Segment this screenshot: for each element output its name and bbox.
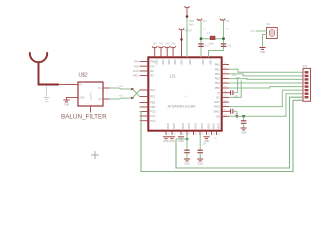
wire U1 p10 to SV1 pin6	[229, 90, 303, 107]
svg-text:XO: XO	[216, 96, 220, 100]
svg-text:GND: GND	[184, 162, 190, 165]
svg-text:PA9: PA9	[134, 65, 139, 68]
antenna stem	[38, 62, 40, 85]
svg-text:RF2: RF2	[150, 95, 155, 99]
wire VDD to U1	[186, 18, 188, 58]
svg-text:23: 23	[224, 67, 226, 69]
U1 top pin stubs	[155, 49, 173, 57]
svg-text:GND: GND	[178, 140, 184, 143]
svg-text:VDD: VDD	[179, 59, 182, 64]
svg-text:39: 39	[208, 134, 210, 136]
svg-text:VDD: VDD	[167, 59, 170, 64]
wire VCC C down	[200, 21, 202, 57]
svg-text:SWC: SWC	[214, 109, 220, 113]
wire L network horizontal	[201, 38, 224, 40]
svg-text:+: +	[185, 95, 187, 99]
svg-text:33: 33	[167, 134, 169, 136]
svg-text:PA11: PA11	[133, 75, 139, 78]
svg-text:GN: GN	[216, 114, 220, 118]
svg-text:XC1: XC1	[232, 75, 237, 77]
svg-text:PB5: PB5	[215, 86, 220, 90]
svg-text:GND: GND	[187, 123, 190, 129]
wire VCC D down	[223, 21, 225, 51]
junction L left	[200, 37, 203, 40]
svg-text:BALUN_FILTER: BALUN_FILTER	[61, 114, 107, 121]
svg-text:3V3: 3V3	[165, 44, 170, 46]
U1 right pin numbers	[224, 63, 226, 117]
wire U1 p7 to C16	[229, 92, 231, 94]
svg-text:GND: GND	[80, 98, 85, 100]
svg-text:10uH: 10uH	[209, 43, 215, 45]
antenna E1 arc	[30, 52, 47, 62]
U1 right pin stubs	[222, 65, 229, 117]
balun U$2 pin 4 stub	[103, 98, 110, 100]
svg-text:3V3: 3V3	[159, 44, 164, 46]
U1 inner pin labels top	[155, 59, 212, 64]
antenna pin dot	[57, 83, 59, 85]
svg-text:PC1: PC1	[150, 114, 156, 118]
svg-text:C14: C14	[204, 46, 209, 48]
antenna foot bar	[38, 83, 57, 85]
svg-text:PA8: PA8	[134, 61, 139, 64]
capacitor C16	[230, 90, 232, 95]
svg-text:17: 17	[224, 96, 226, 98]
wire U1 p5 to SV1 pin4	[229, 82, 303, 84]
U1 bottom pin numbers	[167, 134, 220, 136]
U1 inner pin labels left	[150, 60, 156, 123]
svg-text:PB1: PB1	[215, 67, 220, 71]
power VCC D symbol	[220, 19, 225, 21]
wire bus B	[140, 100, 303, 171]
svg-text:3V3: 3V3	[171, 44, 176, 46]
U1 left pin stubs	[140, 62, 149, 121]
svg-text:GND: GND	[172, 123, 175, 129]
svg-text:IN: IN	[80, 85, 83, 87]
svg-text:GND: GND	[206, 123, 209, 129]
svg-text:XC1: XC1	[251, 31, 256, 33]
svg-text:3V3: 3V3	[202, 21, 207, 23]
wire p187 vertical	[186, 135, 188, 150]
VCC row labels	[153, 44, 176, 46]
svg-text:GND: GND	[193, 123, 196, 129]
balun U$2 pin 2 stub	[72, 97, 78, 99]
svg-text:ANA: ANA	[189, 23, 194, 26]
svg-text:GND: GND	[241, 131, 247, 134]
svg-text:21: 21	[224, 77, 226, 79]
ground balun	[63, 99, 69, 101]
wire U1 p12 to SV1 pin7	[229, 94, 303, 117]
wire balun out2 to U1 (cross)	[110, 90, 140, 99]
svg-text:PB0: PB0	[215, 63, 220, 67]
ground C18	[241, 127, 247, 129]
svg-text:PA7: PA7	[150, 64, 155, 68]
power VCC symbol 2	[158, 46, 163, 48]
svg-text:37: 37	[195, 134, 197, 136]
ground U1 bottom x172	[169, 136, 175, 138]
svg-text:PA10: PA10	[133, 70, 139, 73]
capacitor C19	[184, 149, 189, 151]
net arrow RF-	[131, 97, 134, 100]
wire U1 p8 up	[229, 96, 241, 98]
svg-text:14: 14	[224, 110, 226, 112]
U1 inner pin labels bottom	[166, 123, 220, 129]
svg-text:GND: GND	[181, 123, 184, 129]
capacitor C15	[221, 43, 226, 45]
svg-text:RF1: RF1	[150, 88, 155, 92]
ground U1 bottom x181	[178, 136, 184, 138]
wire C16 up	[234, 92, 238, 94]
gray stub at antenna	[46, 86, 48, 97]
wire U1 p3 to SV1 pin2	[229, 74, 303, 76]
svg-text:VDD: VDD	[189, 21, 194, 23]
gray ground at antenna	[44, 97, 49, 99]
balun U$2 pin 3 stub	[103, 87, 110, 89]
svg-text:NC: NC	[150, 74, 154, 78]
svg-text:40: 40	[213, 134, 215, 136]
svg-text:1uF: 1uF	[203, 143, 208, 145]
svg-text:VDD: VDD	[161, 59, 164, 64]
wire C18 branch	[243, 116, 245, 120]
connector SV1 pin pads	[305, 71, 309, 98]
svg-text:GND: GND	[260, 51, 266, 54]
svg-text:3V3: 3V3	[153, 44, 158, 46]
junction VCC A	[186, 15, 189, 18]
svg-text:3V3: 3V3	[225, 21, 230, 23]
svg-text:VDD: VDD	[208, 59, 211, 64]
wire U1 p4 to SV1 pin3	[229, 78, 303, 81]
svg-text:20: 20	[224, 81, 226, 83]
svg-text:VDD: VDD	[188, 59, 191, 64]
svg-text:15: 15	[224, 105, 226, 107]
capacitor C17	[230, 109, 232, 114]
wire VCC A stub	[186, 9, 188, 17]
svg-text:SWD: SWD	[214, 105, 220, 109]
svg-text:VDDIO: VDDIO	[184, 30, 192, 33]
origin crosshair	[91, 154, 99, 156]
inductor L1	[210, 36, 215, 39]
wire crystal XC1	[256, 30, 267, 32]
svg-text:38: 38	[201, 134, 203, 136]
svg-text:24: 24	[224, 63, 226, 65]
crystal Q1 marks	[269, 30, 271, 36]
wire U1 p2 to SV1 pin1	[229, 69, 303, 72]
ground C20	[197, 158, 203, 160]
capacitor C18	[241, 120, 246, 122]
svg-text:XC2: XC2	[236, 78, 241, 80]
op IC U1 box	[148, 57, 221, 130]
power VCC symbol 4	[171, 46, 176, 48]
svg-text:GND: GND	[44, 101, 49, 103]
wire balun out1 to U1 (cross)	[110, 88, 140, 97]
svg-text:XI: XI	[217, 91, 220, 95]
ground U1 bottom x207	[203, 136, 209, 138]
svg-text:GND: GND	[211, 123, 214, 129]
balun U$2 pin 5 stub	[90, 106, 92, 113]
svg-text:RST: RST	[215, 100, 221, 104]
U1 outer pin labels left	[133, 61, 139, 78]
svg-text:GND: GND	[169, 140, 175, 143]
svg-text:VDD: VDD	[155, 59, 158, 64]
svg-text:ATSAMR21G18A: ATSAMR21G18A	[168, 105, 196, 109]
connector SV1 box	[303, 68, 311, 101]
svg-text:VDD: VDD	[173, 59, 176, 64]
wire antenna feed	[59, 84, 73, 86]
wire U1 p6 to SV1 pin5	[229, 87, 303, 88]
svg-text:2450FB: 2450FB	[91, 92, 93, 100]
svg-text:PC0: PC0	[150, 110, 156, 114]
svg-text:PC2: PC2	[150, 119, 156, 123]
svg-text:NC: NC	[150, 69, 154, 73]
svg-text:18: 18	[224, 91, 226, 93]
svg-text:SV1: SV1	[303, 65, 308, 68]
balun U$2 box	[78, 82, 103, 106]
svg-text:PB3: PB3	[150, 105, 155, 109]
wire p200 vertical	[199, 135, 201, 150]
junction L right	[222, 37, 225, 40]
crystal Q1 box	[267, 28, 278, 39]
junction VCC B	[180, 38, 182, 40]
svg-text:GND: GND	[204, 140, 210, 143]
svg-text:PB3: PB3	[215, 77, 220, 81]
svg-text:19: 19	[224, 86, 226, 88]
wire bus A	[176, 97, 303, 168]
svg-text:VDD: VDD	[201, 59, 204, 64]
wire crystal gnd	[263, 35, 268, 48]
U1 bottom pin stubs	[166, 131, 217, 135]
balun U$2 pin 1 stub	[72, 84, 78, 86]
svg-text:GND: GND	[163, 140, 169, 143]
ground crystal	[259, 47, 265, 49]
svg-text:GND: GND	[64, 103, 70, 106]
svg-text:41: 41	[218, 134, 220, 136]
svg-text:GND: GND	[166, 123, 169, 129]
svg-text:36: 36	[188, 134, 190, 136]
svg-text:PB2: PB2	[215, 72, 220, 76]
wire U1 p11 to C17	[229, 110, 231, 112]
power VCC A symbol	[184, 6, 189, 8]
svg-text:U$2: U$2	[79, 73, 88, 79]
svg-text:PB4: PB4	[215, 81, 220, 85]
power VCC C symbol	[197, 19, 202, 21]
wire p187 to bus A	[176, 138, 187, 140]
power VCC B symbol	[179, 28, 184, 30]
svg-text:13: 13	[224, 115, 226, 117]
svg-text:GND: GND	[216, 123, 219, 129]
svg-text:16: 16	[224, 100, 226, 102]
power VCC symbol 3	[165, 46, 170, 48]
wire VCC D elbow	[209, 51, 224, 58]
svg-text:35: 35	[182, 134, 184, 136]
junction p12 at C17	[236, 115, 239, 118]
wire C17 down	[234, 110, 237, 112]
svg-text:34: 34	[173, 134, 175, 136]
svg-text:PB2: PB2	[150, 101, 155, 105]
junction C18 tap	[242, 115, 245, 118]
svg-text:U1: U1	[170, 74, 176, 80]
ground U1 bottom x166	[163, 136, 169, 138]
capacitor C20	[198, 149, 203, 151]
wire balun gnd	[67, 97, 73, 99]
capacitor C14	[198, 43, 203, 45]
U1 inner pin labels right	[214, 63, 221, 119]
svg-text:GND: GND	[200, 123, 203, 129]
svg-text:22: 22	[224, 72, 226, 74]
junction U1 p187	[186, 138, 189, 141]
svg-text:C15: C15	[227, 46, 232, 48]
net arrow RF+	[131, 88, 134, 91]
wire VCC B to U1	[181, 31, 183, 58]
ground C19	[184, 158, 190, 160]
svg-text:GND: GND	[198, 162, 204, 165]
power VCC symbol 1	[152, 46, 157, 48]
